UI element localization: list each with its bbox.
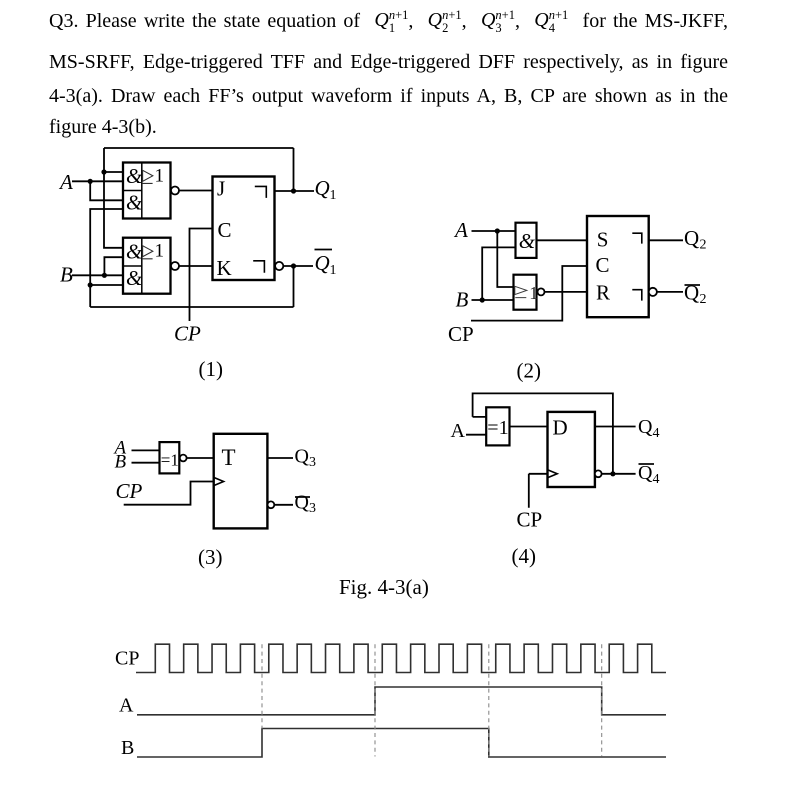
gate G2 AND-OR-INVERT box <box>123 238 171 294</box>
wire Q1bar output <box>284 266 314 307</box>
problem statement text <box>49 9 728 36</box>
svg-text:D: D <box>553 416 568 440</box>
wire A branch to OR gate input1 <box>497 231 513 287</box>
D flip-flop U4 box <box>548 412 595 487</box>
wire AND output to S <box>537 239 588 241</box>
wire Q2 output <box>649 239 683 241</box>
svg-text:1: 1 <box>330 188 337 203</box>
svg-text:Q: Q <box>295 446 310 468</box>
svg-text:Q: Q <box>684 226 699 250</box>
node B junction <box>480 297 485 302</box>
node A junction <box>88 179 93 184</box>
svg-text:1: 1 <box>529 283 538 303</box>
svg-text:T: T <box>222 445 236 470</box>
svg-text:2: 2 <box>700 238 707 253</box>
svg-text:=1: =1 <box>487 417 508 439</box>
wire G2 input4 <box>90 284 123 286</box>
svg-text:B: B <box>121 737 134 759</box>
T flip-flop U3 box <box>214 434 268 529</box>
svg-text:3: 3 <box>309 455 316 470</box>
svg-text:Q: Q <box>684 281 699 305</box>
clock triangle <box>214 477 224 485</box>
wire G2 output to K <box>179 265 213 267</box>
svg-text:B: B <box>456 288 469 312</box>
bubble G1 output <box>171 187 179 195</box>
gate AND box <box>516 223 537 258</box>
svg-text:(2): (2) <box>517 359 542 383</box>
svg-text:&: & <box>126 191 143 215</box>
svg-text:Q: Q <box>638 416 653 438</box>
svg-text:1: 1 <box>155 166 165 187</box>
svg-text:2: 2 <box>700 292 707 307</box>
node B junction <box>102 273 107 278</box>
dashed marker line 4 <box>601 644 603 756</box>
svg-text:CP: CP <box>517 508 543 532</box>
dashed marker line 2 <box>374 644 376 756</box>
node Q1bar <box>291 263 296 268</box>
bubble Q2bar output <box>649 288 657 296</box>
svg-text:A: A <box>451 420 466 442</box>
wire input B <box>132 462 160 464</box>
wire Q1 output <box>275 148 315 191</box>
bubble Q3bar output <box>268 501 275 508</box>
svg-text:1: 1 <box>155 241 165 262</box>
wire Q1bar feedback to G1 input4 and G2 input4 <box>90 209 293 307</box>
wire input A <box>472 230 516 232</box>
node dot on Q1 feedback to gate G1 input1 <box>101 169 106 174</box>
clock triangle <box>548 470 558 478</box>
OR symbols in G1/G2 <box>143 170 153 183</box>
svg-text:C: C <box>218 218 232 242</box>
wire G1 input1 <box>104 171 123 173</box>
gate G1 AND-OR-INVERT box <box>123 163 171 219</box>
svg-text:CP: CP <box>174 322 201 346</box>
OR symbol <box>515 286 527 297</box>
svg-text:CP: CP <box>448 322 474 346</box>
svg-text:CP: CP <box>116 479 143 503</box>
wire B branch to G2 input2 <box>104 257 123 275</box>
wire CP to C <box>190 229 213 322</box>
node dot Q1bar feedback to G2 input4 <box>88 282 93 287</box>
node Q1 <box>291 188 296 193</box>
gate XOR box <box>486 407 509 445</box>
svg-text:B: B <box>115 452 127 473</box>
overline of Q3bar label <box>295 496 310 498</box>
bubble Q4bar output <box>595 470 602 477</box>
wire input A <box>72 180 123 182</box>
node A junction <box>495 228 500 233</box>
dashed marker line 3 <box>488 644 490 756</box>
svg-text:A: A <box>119 695 134 717</box>
wire OR output to R <box>545 291 588 293</box>
svg-text:S: S <box>597 228 609 252</box>
wire CP to C <box>471 266 587 321</box>
corner mark S <box>632 233 642 243</box>
svg-text:&: & <box>519 229 536 253</box>
wire XOR output to T <box>187 457 214 459</box>
node Q4bar junction <box>610 471 615 476</box>
svg-text:R: R <box>596 280 610 304</box>
waveform CP <box>136 644 666 672</box>
svg-text:B: B <box>60 263 73 287</box>
wire input B <box>72 274 123 276</box>
wire input A <box>466 434 486 436</box>
gate XOR box <box>160 442 180 473</box>
svg-text:&: & <box>126 266 143 290</box>
svg-text:A: A <box>58 170 73 194</box>
bubble OR output <box>538 288 545 295</box>
wire CP to clock <box>529 474 548 508</box>
svg-text:Q: Q <box>638 462 653 484</box>
bubble G2 output <box>171 262 179 270</box>
svg-text:3: 3 <box>309 501 316 516</box>
bubble XOR output <box>180 455 187 462</box>
svg-text:=1: =1 <box>161 450 179 469</box>
wire XOR output to D <box>510 426 548 428</box>
wire Q1 top feedback <box>104 148 294 248</box>
waveform B <box>137 729 666 758</box>
wire Q3 output <box>267 457 293 459</box>
overline of Q4bar label <box>639 463 655 465</box>
waveform A <box>137 687 666 715</box>
svg-text:&: & <box>126 164 143 188</box>
svg-text:C: C <box>596 253 610 277</box>
svg-text:1: 1 <box>330 263 337 278</box>
JK flip-flop U1 box <box>213 177 275 281</box>
svg-text:(1): (1) <box>199 357 224 381</box>
gate OR box <box>514 275 537 310</box>
wire CP to clock <box>124 482 214 505</box>
wire Q2bar output <box>657 291 683 293</box>
corner mark R <box>632 290 642 301</box>
overline of Q2bar label <box>685 284 701 286</box>
svg-text:Q: Q <box>295 492 310 514</box>
overline of Q1bar label <box>315 249 333 251</box>
svg-text:(3): (3) <box>198 545 223 569</box>
svg-text:4: 4 <box>653 472 660 487</box>
svg-text:&: & <box>126 240 143 264</box>
wire G1 output to J <box>179 190 213 192</box>
dashed marker line 1 <box>261 644 263 728</box>
wire Q4bar top feedback <box>473 393 613 473</box>
wire Q4bar output <box>602 473 636 475</box>
wire Q4 output <box>595 426 636 428</box>
corner mark J <box>255 186 266 198</box>
svg-text:K: K <box>217 256 232 280</box>
bubble Q1bar output <box>275 262 283 270</box>
wire input A <box>132 449 160 451</box>
svg-text:4: 4 <box>653 426 660 441</box>
svg-text:Q: Q <box>315 251 330 275</box>
wire Q3bar output <box>274 504 293 506</box>
svg-text:Q: Q <box>315 176 330 200</box>
svg-text:J: J <box>217 177 225 201</box>
SR flip-flop U2 box <box>587 216 649 317</box>
svg-text:Fig. 4-3(a): Fig. 4-3(a) <box>339 575 429 599</box>
wire A branch to G1 input3 <box>90 181 123 200</box>
svg-text:A: A <box>453 218 468 242</box>
wire input B <box>472 299 514 301</box>
corner mark K <box>253 261 264 273</box>
wire B branch to AND gate input2 <box>482 247 515 300</box>
svg-text:CP: CP <box>115 648 139 670</box>
svg-text:(4): (4) <box>512 544 537 568</box>
